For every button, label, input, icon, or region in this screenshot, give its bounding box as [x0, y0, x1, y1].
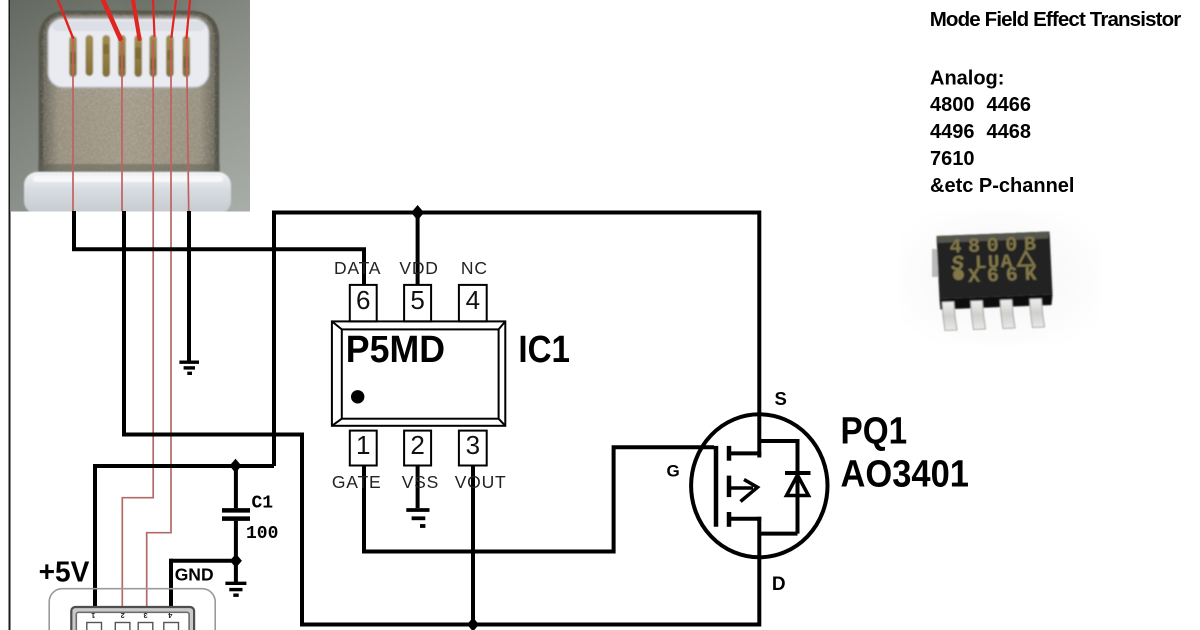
svg-text:1: 1 — [91, 611, 95, 620]
svg-text:VSS: VSS — [402, 472, 439, 492]
svg-text:DATA: DATA — [334, 258, 381, 278]
svg-text:S: S — [775, 388, 787, 409]
svg-text:C1: C1 — [252, 493, 274, 513]
svg-text:6: 6 — [356, 285, 370, 315]
svg-text:5: 5 — [410, 285, 424, 315]
svg-text:D: D — [772, 574, 786, 595]
svg-text:4496: 4496 — [930, 121, 975, 143]
svg-text:IC1: IC1 — [518, 329, 570, 371]
svg-text:4: 4 — [466, 285, 480, 315]
svg-text:&etc P-channel: &etc P-channel — [930, 175, 1074, 197]
svg-text:2: 2 — [121, 611, 125, 620]
svg-text:X66K: X66K — [968, 263, 1044, 289]
svg-text:VDD: VDD — [399, 258, 438, 278]
svg-text:NC: NC — [461, 258, 488, 278]
svg-text:4466: 4466 — [987, 94, 1032, 116]
svg-text:100: 100 — [246, 524, 278, 544]
svg-text:3: 3 — [466, 430, 480, 460]
svg-text:GATE: GATE — [332, 472, 382, 492]
svg-text:PQ1: PQ1 — [841, 411, 908, 453]
svg-text:7610: 7610 — [930, 148, 975, 170]
svg-text:3: 3 — [143, 611, 147, 620]
svg-text:4800: 4800 — [930, 94, 975, 116]
svg-text:P5MD: P5MD — [346, 329, 445, 371]
svg-text:GND: GND — [175, 565, 214, 585]
svg-text:VOUT: VOUT — [455, 472, 507, 492]
svg-text:AO3401: AO3401 — [841, 454, 970, 496]
svg-text:Analog:: Analog: — [930, 68, 1004, 90]
svg-text:G: G — [667, 461, 680, 480]
svg-text:Mode Field Effect Transistor: Mode Field Effect Transistor — [930, 8, 1182, 31]
svg-text:4468: 4468 — [987, 121, 1032, 143]
svg-text:1: 1 — [356, 430, 370, 460]
svg-text:+5V: +5V — [39, 557, 90, 589]
svg-text:2: 2 — [410, 430, 424, 460]
